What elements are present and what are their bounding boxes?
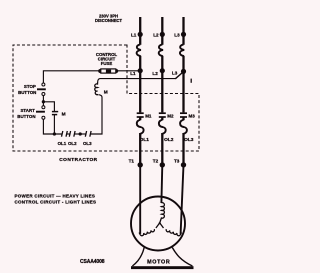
wire L2 supply (power, heavy)	[161, 17, 163, 45]
motor winding phase 2 (middle coil)	[160, 203, 165, 223]
svg-text:M1: M1	[145, 114, 152, 119]
auxiliary contact M (holding)	[52, 111, 66, 117]
label CONTROL CIRCUIT FUSE	[96, 52, 118, 66]
contact M2	[159, 113, 174, 118]
svg-text:BUTTON: BUTTON	[17, 114, 35, 119]
svg-text:L2: L2	[152, 71, 158, 76]
node T2	[160, 162, 165, 167]
svg-text:M2: M2	[167, 114, 174, 119]
overload contact OL3 (control)	[83, 131, 92, 146]
disconnect switch pole 2	[159, 44, 163, 56]
svg-text:L1: L1	[130, 71, 136, 76]
wire OL3 up to coil M	[90, 95, 102, 134]
svg-text:M: M	[104, 89, 108, 95]
node L2 lower	[160, 68, 165, 73]
wire T1 to motor winding	[139, 165, 141, 234]
wire fuse to stop button (control, light)	[43, 71, 99, 83]
node L2 upper	[160, 32, 165, 37]
label STOP BUTTON	[18, 84, 36, 95]
wire T2 to motor winding	[160, 165, 163, 203]
node T1	[138, 162, 143, 167]
wire start button down to OL row	[43, 119, 61, 134]
svg-text:CONTROL CIRCUIT - LIGHT LI: CONTROL CIRCUIT - LIGHT LINES	[15, 200, 97, 205]
svg-text:START: START	[20, 108, 35, 113]
motor pedestal base	[131, 248, 194, 270]
svg-text:POWER CIRCUIT — HEAVY LI: POWER CIRCUIT — HEAVY LINES	[15, 194, 96, 199]
contact M3	[180, 113, 195, 118]
node L1 lower	[138, 68, 143, 73]
node junction stop/start/aux	[42, 100, 45, 103]
contact M1	[137, 113, 152, 118]
svg-text:M: M	[62, 111, 66, 117]
node between OL2 and OL3	[79, 132, 82, 135]
node aux rejoin	[53, 132, 56, 135]
disconnect switch pole 1	[137, 44, 141, 56]
wire OL3 to T3	[182, 135, 184, 168]
wire pole3 to M contact	[182, 56, 184, 113]
wire OL1 to T1	[139, 135, 141, 168]
wire fuse to node L1	[117, 70, 139, 72]
wire pole1 to M contact	[139, 56, 141, 113]
wire aux branch	[43, 102, 54, 112]
svg-text:OL2: OL2	[164, 137, 174, 143]
overload heater OL1	[137, 120, 144, 135]
wire T3 to motor winding	[181, 165, 184, 234]
coil M (contactor coil)	[95, 82, 108, 95]
wire M1 to OL1 heater	[139, 117, 141, 120]
wire OL2 to OL3	[74, 133, 86, 135]
svg-text:L3: L3	[172, 71, 178, 76]
wire L1 supply (power, heavy)	[139, 17, 141, 45]
contactor dashed enclosure (L-shaped)	[13, 45, 199, 151]
wire M2 to OL2 heater	[161, 117, 163, 120]
overload contact OL1 (control)	[58, 131, 68, 146]
fuse F1	[98, 69, 118, 73]
wire pole2 to M contact	[161, 56, 163, 113]
start button (NO pushbutton)	[36, 106, 45, 120]
legend power/control circuit	[15, 194, 97, 205]
wire M3 to OL3 heater	[182, 117, 184, 120]
node L3 upper	[181, 32, 186, 37]
wire OL2 to T2	[161, 135, 163, 168]
motor winding phase 1 (left coil)	[139, 227, 155, 236]
wire coil to L3 (return)	[98, 79, 176, 83]
svg-text:DISCONNECT: DISCONNECT	[95, 18, 123, 23]
stop button (NC pushbutton)	[37, 83, 46, 96]
disconnect switch pole 3	[180, 44, 184, 56]
svg-text:T1: T1	[129, 159, 135, 164]
overload heater OL2	[159, 120, 166, 135]
label 230V 3PH DISCONNECT	[95, 13, 123, 23]
node L3 lower	[181, 69, 186, 74]
wire L3 supply (power, heavy)	[182, 17, 184, 45]
node T3	[181, 162, 186, 167]
node L1 upper	[138, 32, 143, 37]
wire stop to start	[42, 96, 44, 106]
svg-text:L2: L2	[153, 32, 159, 37]
svg-text:OL1: OL1	[58, 141, 67, 146]
svg-text:OL3: OL3	[184, 137, 194, 143]
svg-text:CONTRACTOR: CONTRACTOR	[59, 157, 97, 163]
svg-text:T2: T2	[153, 159, 159, 164]
label START BUTTON	[17, 108, 35, 119]
svg-text:STOP: STOP	[24, 84, 36, 89]
svg-text:OL3: OL3	[83, 141, 92, 146]
svg-text:CSAA4008: CSAA4008	[80, 259, 105, 265]
overload contact OL2 (control)	[68, 131, 77, 146]
svg-text:FUSE: FUSE	[101, 61, 113, 66]
wye center node	[156, 223, 164, 228]
svg-text:T3: T3	[174, 159, 180, 164]
tick mark near L3	[190, 79, 192, 83]
wire aux contact to OL row	[53, 115, 55, 134]
svg-text:MOTOR: MOTOR	[147, 260, 170, 266]
overload heater OL3	[180, 120, 187, 135]
svg-text:BUTTON: BUTTON	[18, 90, 36, 95]
wire OL1 to OL2	[67, 133, 71, 135]
motor winding phase 3 (right coil)	[166, 227, 182, 236]
motor frame circle	[131, 197, 185, 251]
wire diagonal to L3 node	[175, 72, 183, 79]
svg-text:L1: L1	[131, 32, 137, 37]
svg-text:M3: M3	[189, 114, 196, 119]
svg-text:L3: L3	[174, 32, 180, 37]
svg-text:OL2: OL2	[68, 141, 77, 146]
